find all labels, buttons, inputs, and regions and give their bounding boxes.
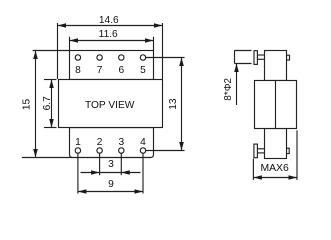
svg-text:15: 15 [22, 99, 33, 111]
svg-text:4: 4 [140, 137, 146, 148]
svg-text:14.6: 14.6 [99, 15, 119, 26]
svg-text:8: 8 [75, 65, 81, 76]
svg-text:3: 3 [108, 159, 114, 170]
svg-text:13: 13 [168, 98, 179, 110]
svg-text:7: 7 [97, 65, 103, 76]
svg-text:2: 2 [97, 137, 103, 148]
svg-text:6.7: 6.7 [42, 96, 53, 110]
svg-text:1: 1 [75, 137, 81, 148]
svg-text:6: 6 [118, 65, 124, 76]
svg-text:5: 5 [140, 65, 146, 76]
svg-text:11.6: 11.6 [99, 29, 118, 40]
svg-text:9: 9 [108, 179, 114, 190]
svg-text:MAX6: MAX6 [260, 163, 289, 174]
svg-text:TOP VIEW: TOP VIEW [85, 100, 135, 111]
svg-text:8*Φ2: 8*Φ2 [223, 78, 234, 101]
svg-text:3: 3 [118, 137, 124, 148]
